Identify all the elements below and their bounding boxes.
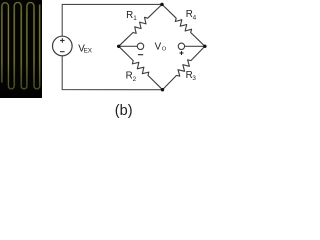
- svg-text:4: 4: [193, 14, 197, 21]
- svg-text:R: R: [126, 10, 133, 21]
- svg-text:2: 2: [133, 76, 137, 83]
- svg-text:1: 1: [133, 15, 137, 22]
- svg-text:3: 3: [192, 75, 196, 82]
- svg-text:O: O: [162, 47, 167, 53]
- svg-text:V: V: [155, 41, 162, 52]
- svg-text:(b): (b): [115, 103, 133, 119]
- svg-text:EX: EX: [84, 47, 93, 54]
